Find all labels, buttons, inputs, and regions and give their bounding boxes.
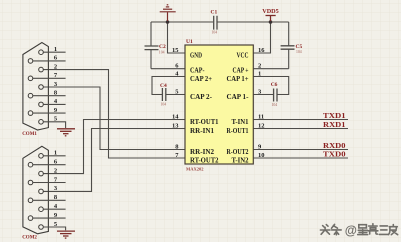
svg-text:GND: GND [190, 51, 202, 60]
svg-text:13: 13 [172, 122, 179, 129]
svg-text:104: 104 [159, 51, 165, 55]
svg-text:12: 12 [258, 122, 265, 129]
svg-text:15: 15 [172, 47, 179, 54]
svg-text:1: 1 [54, 150, 57, 157]
svg-text:C1: C1 [211, 10, 218, 16]
svg-text:CAP 1-: CAP 1- [227, 92, 249, 101]
svg-text:104: 104 [272, 103, 278, 107]
svg-text:104: 104 [212, 31, 218, 35]
svg-text:CAP 2+: CAP 2+ [190, 74, 212, 83]
svg-text:2: 2 [54, 167, 57, 174]
svg-text:TXD1: TXD1 [323, 112, 346, 120]
svg-text:VCC: VCC [237, 51, 249, 60]
svg-text:R-OUT1: R-OUT1 [227, 126, 249, 135]
svg-text:104: 104 [161, 103, 167, 107]
svg-text:C2: C2 [159, 44, 166, 50]
svg-text:16: 16 [258, 47, 265, 54]
svg-text:RR-IN1: RR-IN1 [190, 126, 214, 135]
svg-text:T-IN1: T-IN1 [232, 117, 249, 126]
svg-text:104: 104 [296, 50, 302, 54]
svg-text:RXD1: RXD1 [323, 121, 346, 129]
svg-text:1: 1 [258, 70, 261, 77]
svg-text:2: 2 [54, 63, 57, 70]
svg-text:TXD0: TXD0 [323, 151, 346, 159]
svg-text:RT-OUT1: RT-OUT1 [190, 117, 219, 126]
svg-text:CAP 2-: CAP 2- [190, 92, 212, 101]
svg-text:MAX202: MAX202 [186, 167, 204, 172]
svg-text:14: 14 [172, 113, 179, 120]
svg-text:RXD0: RXD0 [323, 142, 346, 150]
svg-text:COM1: COM1 [22, 132, 37, 137]
svg-text:COM2: COM2 [22, 235, 37, 240]
svg-text:RT-OUT2: RT-OUT2 [190, 156, 219, 165]
svg-text:C6: C6 [271, 82, 278, 88]
svg-text:C4: C4 [160, 83, 167, 89]
svg-text:1: 1 [54, 46, 57, 53]
svg-text:CAP 1+: CAP 1+ [227, 74, 249, 83]
svg-text:T-IN2: T-IN2 [232, 156, 249, 165]
svg-text:@: @ [345, 223, 357, 237]
svg-text:2: 2 [258, 63, 261, 70]
svg-text:10: 10 [258, 152, 265, 159]
svg-text:11: 11 [258, 113, 264, 120]
svg-text:VDD5: VDD5 [262, 8, 279, 15]
svg-text:U1: U1 [186, 39, 193, 45]
